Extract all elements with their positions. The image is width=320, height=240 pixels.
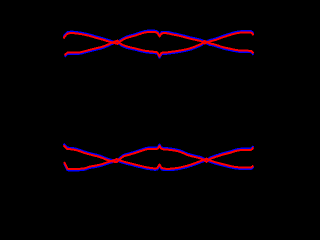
black figure background xyxy=(0,0,255,202)
bottom panel: red lower band curve xyxy=(64,159,253,169)
bottom panel: red upper band curve xyxy=(64,145,254,162)
top panel: blue lower band curve xyxy=(65,42,254,58)
top panel: red upper band curve xyxy=(64,32,254,44)
top panel: blue upper band curve xyxy=(64,31,254,43)
bottom panel: blue upper band curve xyxy=(64,144,254,161)
bottom panel: blue lower band curve xyxy=(64,160,253,170)
top panel: red lower band curve xyxy=(65,41,254,57)
